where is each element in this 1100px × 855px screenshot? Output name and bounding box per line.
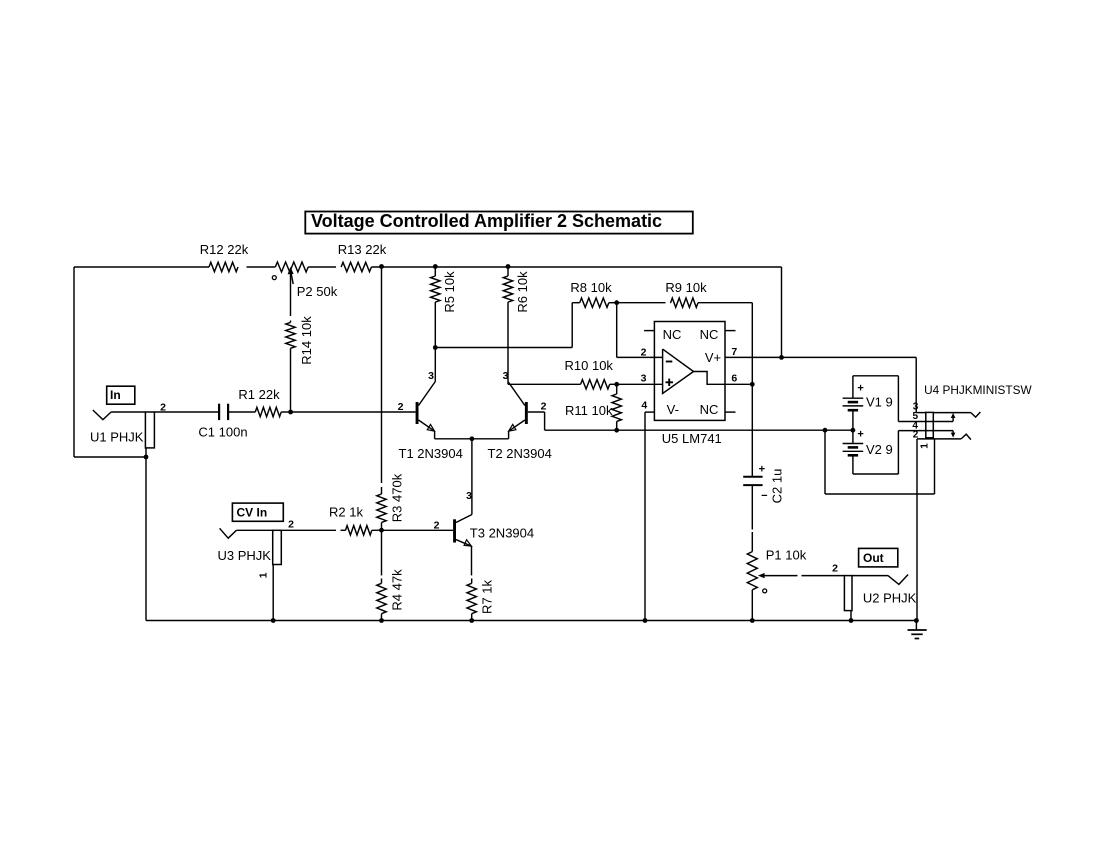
wire battery bottom loop <box>853 431 899 474</box>
svg-text:+: + <box>759 464 765 476</box>
svg-text:2: 2 <box>541 401 547 413</box>
junction U3 / bottom rail <box>271 618 276 623</box>
resistor R13 <box>338 242 387 272</box>
svg-text:R14 10k: R14 10k <box>299 316 314 365</box>
capacitor C1 100n <box>198 404 247 440</box>
wire emitter link <box>435 438 509 440</box>
svg-text:R5 10k: R5 10k <box>442 271 457 313</box>
switch U4 body <box>926 412 934 437</box>
Out box label <box>859 548 898 567</box>
resistor R7 <box>467 579 495 614</box>
svg-text:R1 22k: R1 22k <box>238 387 280 402</box>
svg-text:R8 10k: R8 10k <box>570 280 612 295</box>
svg-text:7: 7 <box>731 346 737 358</box>
svg-text:1: 1 <box>258 572 270 578</box>
junction T3 base node <box>379 528 384 533</box>
junction R6 top <box>506 264 511 269</box>
wire U4 frame to 0V <box>825 430 935 494</box>
svg-text:U5 LM741: U5 LM741 <box>662 431 722 446</box>
resistor R9 <box>665 280 707 307</box>
svg-text:1: 1 <box>920 443 931 449</box>
wire bottom rail <box>146 620 916 622</box>
svg-text:T3 2N3904: T3 2N3904 <box>470 526 534 541</box>
svg-text:R11 10k: R11 10k <box>565 403 613 418</box>
connector U3 PHJK CV input jack <box>218 519 295 579</box>
connector U2 PHJK output jack <box>832 563 917 611</box>
resistor R14 <box>286 316 314 365</box>
transistor T1 2N3904 <box>398 370 463 461</box>
wire <box>381 614 383 621</box>
junction R8 / R9 / pin2 <box>614 300 619 305</box>
resistor R1 <box>238 387 281 417</box>
wire <box>247 266 276 268</box>
transistor T2 2N3904 <box>488 370 552 461</box>
svg-text:6: 6 <box>731 373 737 385</box>
svg-text:V-: V- <box>667 402 679 417</box>
junction 0V / U4 frame <box>823 428 828 433</box>
svg-text:C1 100n: C1 100n <box>198 425 247 440</box>
title box <box>305 211 693 234</box>
svg-text:R3 470k: R3 470k <box>390 473 405 522</box>
wire U2 sleeve to rail <box>850 611 852 621</box>
svg-text:NC: NC <box>700 327 719 342</box>
svg-text:R13 22k: R13 22k <box>338 242 387 257</box>
svg-text:R2 1k: R2 1k <box>329 505 363 520</box>
potentiometer P2 <box>272 262 337 299</box>
wire V+ to U4 pin 3 <box>915 357 917 412</box>
svg-text:−: − <box>761 490 767 502</box>
svg-text:Out: Out <box>863 551 884 565</box>
svg-text:2: 2 <box>288 519 294 531</box>
wire to pin 3 <box>617 383 663 385</box>
junction R13 / R3 node <box>379 264 384 269</box>
wire to T3 collector <box>471 439 473 515</box>
resistor R10 <box>565 358 614 389</box>
switch U4 upper throw contact <box>933 412 980 417</box>
svg-text:V+: V+ <box>705 350 721 365</box>
In box label <box>107 386 135 404</box>
wire input row to T1 base <box>291 411 416 413</box>
wire <box>154 411 219 413</box>
svg-text:R10 10k: R10 10k <box>565 358 614 373</box>
wire <box>617 302 666 304</box>
svg-text:+: + <box>857 383 863 395</box>
wire <box>381 523 383 531</box>
resistor R8 <box>570 280 612 307</box>
wire U3 pin1 down <box>272 565 274 621</box>
resistor R3 <box>377 473 405 522</box>
svg-text:C2 1u: C2 1u <box>770 469 785 504</box>
battery V2 9V <box>843 428 893 474</box>
wire <box>751 485 753 529</box>
wire <box>281 411 290 413</box>
svg-text:T2 2N3904: T2 2N3904 <box>488 446 552 461</box>
wire pin 6 output <box>725 383 752 385</box>
wire T2 base jog <box>528 412 545 430</box>
svg-text:T1 2N3904: T1 2N3904 <box>399 446 463 461</box>
wire R3 top lead <box>381 267 383 484</box>
junction R5 top <box>433 264 438 269</box>
resistor R6 <box>503 267 530 313</box>
junction V- / bottom rail <box>643 618 648 623</box>
junction R10 / R11 / pin3 <box>614 382 619 387</box>
svg-text:U1 PHJK: U1 PHJK <box>90 430 144 445</box>
op-amp U5 LM741 <box>641 322 738 447</box>
wire <box>471 614 473 621</box>
svg-text:R4 47k: R4 47k <box>390 569 405 611</box>
wire top rail left segment <box>74 266 209 268</box>
wire mid rail 0V <box>545 429 853 431</box>
wire <box>308 266 336 268</box>
svg-text:3: 3 <box>503 370 509 382</box>
junction U1 sleeve / loop <box>144 455 149 460</box>
wire P2 wiper down <box>290 271 292 317</box>
svg-text:V2 9: V2 9 <box>866 442 893 457</box>
wire U4 pin 3/5 <box>913 401 926 422</box>
svg-text:3: 3 <box>466 490 472 502</box>
junction R7 / bottom rail <box>469 618 474 623</box>
svg-text:Voltage Controlled Amplifier 2: Voltage Controlled Amplifier 2 Schematic <box>311 211 662 231</box>
wire <box>290 348 292 412</box>
switch U4 pin 4 pole <box>898 413 955 431</box>
wire to pin 2 <box>617 303 663 358</box>
svg-text:V1 9: V1 9 <box>866 395 893 410</box>
switch U4 pin 2 pole <box>898 429 955 440</box>
resistor R4 <box>377 569 405 614</box>
svg-text:U2 PHJK: U2 PHJK <box>863 591 917 606</box>
wire T1 collector to R8 <box>435 303 579 348</box>
svg-text:CV In: CV In <box>237 506 268 520</box>
junction R11 / mid rail <box>614 428 619 433</box>
wire feedback loop left <box>74 267 146 457</box>
capacitor C2 1u <box>743 464 784 504</box>
label U4 <box>924 383 1032 397</box>
resistor R2 <box>329 505 372 536</box>
wire V- to bottom rail <box>644 412 646 620</box>
wire R6 to T2 collector <box>507 302 509 381</box>
junction pin6 / R9 / C2 <box>750 382 755 387</box>
battery V1 9V <box>843 376 893 430</box>
svg-text:NC: NC <box>700 402 719 417</box>
wire <box>751 590 753 621</box>
svg-text:3: 3 <box>641 373 647 385</box>
wire U4 pin 1 to ground rail <box>917 439 931 621</box>
wire top rail right segment <box>371 266 781 268</box>
wire U1 pin1 to bottom rail <box>145 448 147 621</box>
svg-text:R6 10k: R6 10k <box>515 271 530 313</box>
wire T3 base <box>382 529 454 531</box>
wire <box>751 384 753 477</box>
svg-text:In: In <box>110 388 121 402</box>
resistor R5 <box>431 267 457 313</box>
wire <box>372 529 382 531</box>
CV In box label <box>232 503 283 521</box>
connector U1 PHJK input jack <box>90 402 166 448</box>
wire <box>381 530 383 575</box>
wire <box>281 529 336 531</box>
svg-text:+: + <box>857 428 863 440</box>
junction ground node <box>914 618 919 623</box>
svg-text:4: 4 <box>641 400 647 412</box>
wire <box>610 383 617 385</box>
wire <box>228 411 255 413</box>
svg-text:U4 PHJKMINISTSW: U4 PHJKMINISTSW <box>924 383 1032 397</box>
svg-text:3: 3 <box>428 370 434 382</box>
svg-text:P2 50k: P2 50k <box>297 284 338 299</box>
svg-text:R12 22k: R12 22k <box>200 242 249 257</box>
resistor R12 <box>200 242 249 272</box>
svg-text:2: 2 <box>398 401 404 413</box>
svg-text:2: 2 <box>641 347 647 359</box>
wire T2 collector to R10 <box>508 382 581 385</box>
junction P1 / bottom rail <box>750 618 755 623</box>
switch U4 lower throw contact <box>917 434 971 439</box>
wire R9 to op-amp output <box>698 303 752 385</box>
junction R4 / bottom rail <box>379 618 384 623</box>
svg-text:NC: NC <box>663 327 682 342</box>
ground <box>908 621 927 639</box>
wire pin 7 V+ <box>725 356 916 358</box>
potentiometer P1 <box>747 532 844 593</box>
wire R5 to T1 collector <box>434 302 436 381</box>
svg-text:2: 2 <box>832 563 838 575</box>
wire top rail drop to V+ <box>781 267 783 357</box>
wire battery top loop <box>853 376 899 422</box>
wire <box>609 302 617 304</box>
transistor T3 2N3904 <box>434 490 535 575</box>
svg-text:R7 1k: R7 1k <box>480 580 495 614</box>
junction U2 / bottom rail <box>849 618 854 623</box>
svg-text:P1 10k: P1 10k <box>766 548 807 563</box>
junction V+ node <box>779 355 784 360</box>
junction T1 collector / R8 line <box>433 345 438 350</box>
junction R1 / R14 node <box>288 410 293 415</box>
svg-text:R9 10k: R9 10k <box>665 280 707 295</box>
svg-text:U3 PHJK: U3 PHJK <box>218 548 272 563</box>
resistor R11 <box>565 384 621 430</box>
junction emitters / T3 collector <box>470 436 475 441</box>
junction battery mid / 0V rail <box>851 428 856 433</box>
